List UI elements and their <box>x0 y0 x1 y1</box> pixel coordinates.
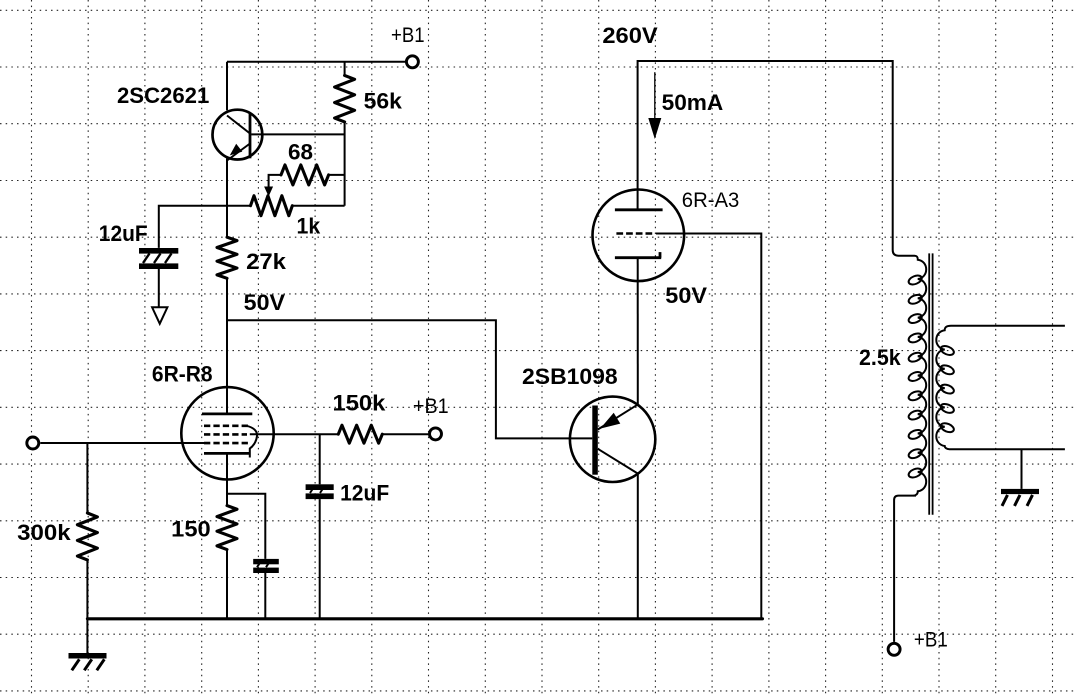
current arrow 50mA <box>648 72 661 139</box>
wire 1k left to cap C1 <box>159 206 251 248</box>
svg-text:12uF: 12uF <box>99 221 148 246</box>
wire base of Q1 <box>251 133 344 135</box>
wire 68 right lead <box>329 174 345 176</box>
wire +B1 top rail <box>227 61 405 63</box>
wire Q1 emitter down <box>226 159 228 238</box>
wire 150k to +B1 mid <box>382 433 428 435</box>
wire tube cathode down <box>226 453 228 505</box>
svg-text:2.5k: 2.5k <box>859 345 901 370</box>
svg-text:68: 68 <box>288 139 313 164</box>
wire collector to rail <box>226 62 228 111</box>
svg-text:50V: 50V <box>244 290 286 315</box>
tube V2 6R-A3 <box>593 190 685 282</box>
resistor 300k <box>77 513 97 560</box>
svg-text:300k: 300k <box>17 520 71 545</box>
svg-text:+B1: +B1 <box>914 629 948 652</box>
wire junction to C3 <box>319 434 321 484</box>
transformer T1 primary winding <box>907 256 926 496</box>
transformer T1 secondary winding <box>936 326 1065 450</box>
wire V2 grid to rail riser <box>656 234 761 619</box>
wire 27k bottom to tube plate <box>226 278 228 414</box>
ground symbol bottom left <box>69 653 107 670</box>
resistor 150k <box>338 425 382 443</box>
terminal +B1 bottom <box>888 643 900 655</box>
wire ground rail <box>87 617 762 620</box>
wire 56k top lead <box>344 62 346 76</box>
wire C3 bottom to rail <box>319 499 321 619</box>
wire 260V rail <box>638 61 913 256</box>
wire Q2 collector to rail <box>637 474 639 619</box>
svg-text:+B1: +B1 <box>413 395 449 418</box>
ground symbol secondary <box>1001 449 1039 506</box>
svg-text:6R-A3: 6R-A3 <box>682 189 740 212</box>
wire 50V node to Q2 base <box>227 320 592 438</box>
resistor 27k <box>217 237 237 278</box>
svg-text:50mA: 50mA <box>662 90 724 115</box>
svg-text:2SC2621: 2SC2621 <box>117 83 209 108</box>
wire cathode branch to C2 <box>227 494 265 559</box>
transformer T1 core <box>929 253 932 514</box>
svg-text:6R-R8: 6R-R8 <box>152 362 213 387</box>
resistor 150 <box>217 506 237 550</box>
wire input to 300k <box>86 443 88 513</box>
input terminal <box>27 437 39 449</box>
capacitor C1 12uF <box>139 248 178 269</box>
wire C2 bottom to rail <box>264 573 266 619</box>
potentiometer R 1k <box>251 196 293 216</box>
tube V1 6R-R8 <box>181 387 273 479</box>
capacitor C3 12uF <box>306 484 334 499</box>
wire 1k right lead <box>292 205 344 207</box>
svg-text:56k: 56k <box>364 88 403 113</box>
svg-text:150: 150 <box>171 517 211 542</box>
resistor 68 <box>281 165 329 185</box>
capacitor C2 <box>253 559 279 573</box>
svg-text:50V: 50V <box>665 283 707 308</box>
wire tube right lead to 150k <box>250 433 338 435</box>
wire 300k bottom to ground <box>86 560 88 654</box>
ground arrow <box>152 307 167 323</box>
svg-text:150k: 150k <box>333 391 387 416</box>
svg-text:260V: 260V <box>602 23 658 48</box>
wire 68 left lead to wiper <box>269 175 281 187</box>
wire 56k bottom to 1k right <box>344 122 346 206</box>
terminal +B1 top <box>406 56 418 68</box>
svg-text:12uF: 12uF <box>340 481 389 506</box>
svg-text:2SB1098: 2SB1098 <box>522 364 618 389</box>
svg-text:1k: 1k <box>297 213 321 238</box>
transistor Q1 2SC2621 <box>213 110 263 161</box>
wire primary bottom to +B1 <box>894 496 916 642</box>
svg-text:+B1: +B1 <box>391 24 425 47</box>
wire input to grid <box>40 442 204 444</box>
potentiometer wiper arrow <box>264 187 273 197</box>
wire 150 bottom to rail <box>226 550 228 619</box>
wire C1 bottom to ground arrow <box>158 269 160 307</box>
wire V2 cathode to Q2 emitter <box>637 258 639 405</box>
resistor 56k <box>335 75 355 122</box>
svg-text:27k: 27k <box>246 249 287 274</box>
terminal +B1 mid <box>430 428 442 440</box>
transistor Q2 2SB1098 <box>570 397 655 482</box>
